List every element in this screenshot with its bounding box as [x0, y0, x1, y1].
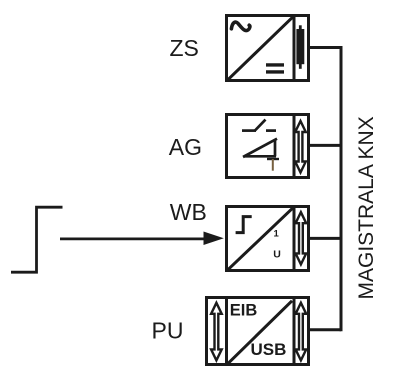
WB separator [293, 205, 296, 272]
AG switch symbol [242, 120, 276, 131]
svg-text:EIB: EIB [230, 302, 258, 320]
AG box [227, 115, 309, 178]
PU left bus arrow [211, 303, 222, 361]
block ZS power supply [227, 14, 309, 82]
WB diagonal [228, 208, 293, 270]
svg-text:1: 1 [274, 229, 280, 240]
svg-text:AG: AG [169, 134, 202, 160]
bus line KNX [340, 46, 343, 331]
PU left separator [225, 296, 228, 366]
AG bus arrow [295, 121, 306, 173]
ZS choke symbol [296, 25, 304, 69]
ZS separator [293, 14, 296, 82]
WB step symbol [236, 217, 252, 233]
svg-text:WB: WB [170, 199, 207, 225]
svg-text:U: U [273, 249, 281, 261]
svg-text:ZS: ZS [170, 35, 199, 61]
svg-text:MAGISTRALA KNX: MAGISTRALA KNX [355, 116, 378, 299]
ZS box [227, 16, 309, 81]
wire PU to bus [310, 328, 341, 331]
AG dimmer ramp symbol [243, 139, 279, 171]
input step waveform [11, 207, 63, 272]
PU diagonal [228, 301, 292, 363]
wire WB to bus [310, 237, 341, 240]
WB bus arrow [296, 212, 307, 264]
block PU USB interface [207, 296, 309, 366]
ZS AC symbol [231, 22, 250, 30]
wire AG to bus [310, 144, 341, 147]
svg-text:PU: PU [152, 318, 184, 344]
PU right separator [293, 296, 296, 366]
wire ZS to bus [310, 46, 341, 49]
svg-text:USB: USB [251, 340, 287, 359]
AG separator [293, 113, 296, 179]
ZS diagonal [228, 17, 293, 80]
PU box [207, 298, 309, 365]
ZS DC symbol [266, 65, 284, 72]
block AG switch-dimmer actuator [227, 113, 309, 179]
PU right bus arrow [296, 303, 307, 361]
WB box [227, 207, 309, 271]
block WB binary input [227, 205, 309, 272]
input arrow to WB [60, 232, 224, 246]
